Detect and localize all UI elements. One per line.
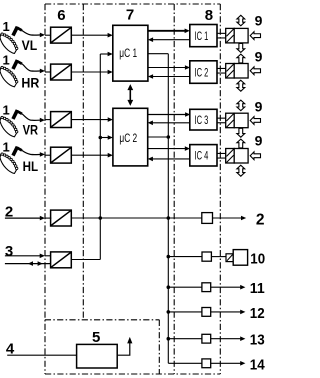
svg-text:1: 1: [3, 52, 10, 67]
svg-text:13: 13: [250, 332, 265, 349]
label 9 row 3: [255, 99, 263, 115]
label 9 row 1: [255, 13, 263, 29]
label 5: [92, 329, 100, 346]
wire output row 12: [168, 310, 245, 315]
wire frame to input box: [45, 154, 51, 156]
wire output row 11: [168, 285, 245, 290]
svg-text:VL: VL: [22, 38, 38, 53]
svg-text:IC 1: IC 1: [195, 29, 209, 43]
label 10: [250, 250, 265, 267]
input circuit box (HR) block 6: [51, 64, 72, 80]
svg-text:1: 1: [3, 19, 10, 34]
wire input 3 (to ECU): [5, 254, 51, 259]
wires IC4 to solenoid valve 4: [217, 153, 225, 158]
flow arrow right of valve 1: [250, 32, 260, 40]
solenoid valve 9 (coil) row 2: [226, 64, 235, 79]
wheel-speed sensor 1 (VL): [0, 26, 23, 54]
svg-text:1: 1: [3, 139, 10, 154]
wire uC2 to IC3: [148, 112, 191, 117]
valve driver IC 2 (block 8): [190, 61, 217, 84]
microcontroller uC2: [113, 108, 148, 166]
solenoid valve 9 (coil) row 3: [226, 113, 235, 128]
sensor label 1: [3, 52, 10, 67]
wire frame to input box: [45, 119, 51, 121]
label 9 row 4: [255, 133, 263, 149]
flow arrow right of valve 3: [250, 117, 260, 125]
wire uC1 to IC2: [148, 65, 190, 70]
divider between block 7 and block 8 (dash-dot): [173, 4, 175, 374]
svg-text:μC 1: μC 1: [119, 46, 137, 60]
label 12: [250, 305, 265, 322]
wheel-speed sensor 1 (HL): [0, 146, 23, 174]
wire row 10 (motor relay): [168, 256, 226, 258]
connector square row 2: [202, 213, 213, 224]
wire input 4: [7, 354, 76, 356]
wire VL box to uC1: [71, 33, 113, 38]
flow arrow right of valve 2: [250, 67, 260, 75]
wire frame to input box: [45, 71, 51, 73]
flow arrow above valve 2: [237, 54, 245, 63]
svg-text:9: 9: [255, 13, 263, 29]
label 4 (power input): [6, 340, 15, 357]
wire HL box to uC2: [71, 153, 113, 158]
wire sensor VL to input circuit: [22, 30, 45, 37]
sensor position label HL: [23, 159, 38, 174]
junction dot bus A / input 2 line: [99, 216, 103, 220]
connector square row 10: [202, 252, 211, 261]
label 13: [250, 332, 265, 349]
svg-text:14: 14: [250, 356, 265, 373]
wire VR box to uC2: [71, 117, 113, 122]
junction dot bus B / row 12: [167, 310, 171, 314]
wire frame to input box: [45, 34, 51, 36]
connector square row 13: [202, 334, 211, 343]
junction dot bus B / row 2: [167, 216, 171, 220]
svg-text:3: 3: [5, 243, 13, 260]
svg-text:5: 5: [92, 329, 100, 346]
wire sensor VR to input circuit: [22, 114, 45, 123]
link uC1-uC2 (double arrow): [127, 84, 133, 106]
svg-text:11: 11: [250, 280, 265, 297]
svg-text:2: 2: [256, 211, 265, 228]
wire output row 2: [71, 216, 246, 221]
divider between block 6 and block 7 (dash-dot): [82, 4, 84, 320]
microcontroller uC1: [113, 25, 148, 81]
relay coil 10: [226, 254, 233, 262]
wires IC1 to solenoid valve 1: [217, 33, 225, 38]
wheel-speed sensor 1 (HR): [0, 59, 23, 87]
flow arrow below valve 1: [237, 44, 245, 53]
input circuit box (VR) block 6: [51, 112, 72, 128]
label 8: [205, 7, 213, 24]
wire uC1 to IC1: [148, 29, 190, 34]
junction dot bus A / uC2 tap: [99, 136, 103, 140]
flow arrow below valve 4: [237, 165, 245, 176]
wire IC1 to uC1 (monitor): [148, 37, 190, 42]
bus from inputs 2/3 to both microcontrollers: [71, 52, 113, 260]
input circuit box (input 2) block 6: [51, 210, 72, 226]
wire IC3 to uC2 (monitor): [148, 121, 190, 126]
junction dot bus B / row 13: [167, 337, 171, 341]
wires IC2 to solenoid valve 2: [217, 68, 225, 73]
label 2 (input): [5, 203, 13, 220]
wheel-speed sensor 1 (VR): [0, 109, 23, 137]
wire IC4 to uC2 (monitor): [148, 157, 190, 162]
wire uC2 to IC4: [148, 146, 190, 151]
valve driver IC 1 (block 8): [190, 25, 217, 47]
input circuit box (input 3) block 6: [51, 252, 72, 268]
connector square row 12: [202, 308, 211, 317]
wires IC3 to solenoid valve 3: [217, 118, 225, 123]
voltage regulator box 5: [77, 344, 118, 368]
junction dot uC2 / bus B: [167, 135, 171, 139]
flow arrow below valve 2: [237, 80, 245, 91]
junction dot bus B / row 10: [167, 255, 171, 259]
connector square row 14: [202, 359, 211, 368]
block 5 enclosure (dash-dot): [45, 320, 160, 374]
flow arrow right of valve 4: [250, 152, 260, 160]
sensor position label VL: [22, 38, 38, 53]
svg-text:9: 9: [255, 49, 263, 65]
flow arrow above valve 1: [237, 15, 245, 25]
svg-text:10: 10: [250, 250, 265, 267]
svg-text:IC 2: IC 2: [195, 65, 209, 79]
svg-text:7: 7: [126, 7, 134, 24]
wire sensor HL to input circuit: [22, 150, 45, 156]
input circuit box (HL) block 6: [51, 147, 72, 163]
label 11: [250, 280, 265, 297]
solenoid valve 9 (body) row 2: [234, 64, 248, 79]
wire sensor HR to input circuit: [22, 64, 45, 73]
valve driver IC 3 (block 8): [190, 109, 217, 130]
svg-text:HL: HL: [23, 159, 38, 174]
flow arrow above valve 3: [237, 100, 245, 111]
wire HR box to uC1: [71, 70, 113, 75]
svg-text:IC 3: IC 3: [195, 113, 209, 127]
ECU boundary frame (dash-dot): [45, 4, 220, 374]
solenoid valve 9 (coil) row 1: [226, 28, 235, 43]
sensor label 1: [3, 139, 10, 154]
svg-text:HR: HR: [21, 75, 39, 90]
wire uC1 to bus B: [148, 53, 168, 55]
label 6: [57, 7, 65, 24]
wire output row 13: [168, 336, 245, 341]
svg-text:IC 4: IC 4: [195, 149, 209, 163]
bus B vertical (outputs): [167, 54, 169, 364]
label 7: [126, 7, 134, 24]
connector square row 11: [202, 283, 211, 292]
label 14: [250, 356, 265, 373]
flow arrow above valve 4: [237, 139, 245, 148]
svg-text:8: 8: [205, 7, 213, 24]
svg-text:VR: VR: [23, 122, 39, 137]
wire input 2: [5, 216, 51, 221]
svg-text:μC 2: μC 2: [119, 131, 137, 145]
valve driver IC 4 (block 8): [190, 145, 217, 166]
svg-text:6: 6: [57, 7, 65, 24]
svg-text:9: 9: [255, 133, 263, 149]
solenoid valve 9 (body) row 3: [234, 113, 248, 128]
sensor position label HR: [21, 75, 39, 90]
label 2 (output): [256, 211, 265, 228]
sensor position label VR: [23, 122, 39, 137]
svg-text:12: 12: [250, 305, 265, 322]
label 9 row 2: [255, 49, 263, 65]
sensor label 1: [3, 102, 10, 117]
svg-text:9: 9: [255, 99, 263, 115]
pump motor box 10: [233, 250, 247, 266]
sensor label 1: [3, 19, 10, 34]
solenoid valve 9 (body) row 1: [234, 28, 248, 43]
wire input 3 (from ECU, bidirectional): [5, 261, 51, 266]
label 3 (input): [5, 243, 13, 260]
wire uC2 to bus B: [148, 136, 169, 138]
solenoid valve 9 (body) row 4: [234, 149, 248, 164]
flow arrow below valve 3: [237, 128, 245, 137]
wire regulator output (up arrow): [117, 337, 132, 355]
wire output row 14: [168, 361, 245, 366]
svg-text:1: 1: [3, 102, 10, 117]
wire IC2 to uC1 (monitor): [148, 74, 190, 79]
solenoid valve 9 (coil) row 4: [226, 149, 235, 164]
junction dot bus B / row 11: [167, 285, 171, 289]
input circuit box (VL) block 6: [51, 27, 72, 43]
